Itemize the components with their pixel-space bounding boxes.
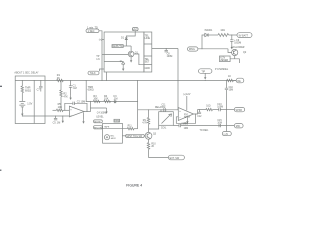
- svg-text:10K: 10K: [104, 97, 109, 100]
- node junction: [231, 35, 232, 36]
- wire: amp input: [138, 109, 179, 111]
- svg-text:EXT. SW: EXT. SW: [170, 157, 180, 160]
- svg-text:100M: 100M: [167, 56, 173, 58]
- transistor Q1: [130, 46, 132, 51]
- svg-text:ABOUT 1 SEC. DELAY: ABOUT 1 SEC. DELAY: [14, 71, 39, 74]
- capacitor C1 to ground: [70, 81, 72, 86]
- diode D2 1N4001: [205, 33, 208, 36]
- svg-text:FIGURE 4: FIGURE 4: [126, 184, 142, 188]
- capacitor C7 (in box): [40, 81, 42, 87]
- svg-text:1.5V: 1.5V: [27, 102, 32, 105]
- svg-text:(+): (+): [99, 38, 102, 41]
- ground (battery): [21, 111, 23, 116]
- decoder box outline: [104, 32, 144, 72]
- wire: left pin to LED: [104, 61, 123, 63]
- ground (op-amp U1): [83, 112, 85, 119]
- ground (TIP): [204, 73, 206, 75]
- svg-text:47K: 47K: [63, 95, 68, 98]
- svg-text:10M: 10M: [184, 128, 189, 130]
- relay switch arm: [162, 114, 172, 124]
- capacitor C11 on amp input: [163, 109, 164, 111]
- svg-text:IN4001: IN4001: [205, 29, 213, 32]
- svg-text:FOLLOWER: FOLLOWER: [232, 47, 245, 49]
- transistor Q3: [145, 132, 152, 139]
- op-amp U2: [178, 108, 193, 121]
- svg-text:(+)12V: (+)12V: [183, 94, 190, 96]
- svg-text:2K: 2K: [57, 77, 60, 80]
- svg-text:TAPE: TAPE: [104, 125, 110, 128]
- svg-text:SET: SET: [145, 61, 150, 64]
- ground (C4): [105, 109, 107, 114]
- svg-text:10M: 10M: [217, 123, 222, 125]
- chain label: tone decoder IC: [112, 45, 123, 48]
- svg-text:2K: 2K: [151, 146, 154, 148]
- svg-text:10Ω: 10Ω: [220, 29, 225, 32]
- wire: signal bus: [86, 100, 137, 102]
- ground (C9): [231, 45, 233, 50]
- terminal oval TIP: [199, 69, 212, 74]
- zener diode Z1: [220, 56, 231, 62]
- op-amp U1: [69, 106, 84, 117]
- wire: vertical from rail: [137, 81, 139, 129]
- wire: stub to relay: [160, 110, 162, 112]
- svg-text:REM: REM: [115, 121, 120, 123]
- svg-text:9V BATT: 9V BATT: [239, 34, 249, 37]
- edge mark 1: [0, 85, 2, 87]
- terminal oval: 1 SEC TD: [86, 29, 99, 33]
- switch label box RECORD: [94, 126, 103, 129]
- terminal oval REM: [236, 78, 244, 83]
- svg-text:10Ω: 10Ω: [206, 106, 211, 108]
- svg-text:4.7K: 4.7K: [142, 122, 147, 124]
- diode D1: [125, 38, 127, 40]
- svg-text:1.6: 1.6: [96, 58, 100, 61]
- terminal oval SPKR: [234, 107, 244, 111]
- wire: output: [196, 110, 206, 114]
- wire: Q1 base from box pin: [104, 54, 128, 56]
- terminal oval +12V: [132, 28, 138, 31]
- ground (Q1 emitter): [130, 57, 132, 58]
- svg-text:1K: 1K: [228, 75, 231, 78]
- svg-text:P CHANNEL: P CHANNEL: [215, 68, 229, 71]
- wire: pin TP: [102, 54, 104, 56]
- switch chain label: [122, 135, 125, 137]
- label box REM: [114, 119, 120, 122]
- terminal oval RING: [188, 47, 198, 51]
- svg-text:C7: C7: [37, 89, 41, 92]
- capacitor C3 on bus: [112, 100, 115, 102]
- svg-text:1 SEC: 1 SEC: [88, 30, 95, 33]
- wire: pin (+): [102, 39, 104, 41]
- node junction rail/vert: [226, 80, 227, 81]
- svg-text:(+)V: (+)V: [224, 134, 229, 136]
- terminal oval EXT SW: [168, 155, 184, 160]
- svg-text:SPKR: SPKR: [236, 109, 243, 112]
- wire: relay coil to Q3: [149, 125, 159, 129]
- svg-text:+: +: [70, 108, 72, 111]
- wire: pin from decoder box: [152, 48, 178, 50]
- capacitor C8 to ground (hanging): [165, 49, 167, 51]
- svg-text:RECORD: RECORD: [94, 127, 104, 129]
- junction dots: [22, 80, 206, 117]
- svg-text:C12: C12: [197, 116, 202, 118]
- svg-text:10K: 10K: [93, 97, 98, 100]
- svg-text:TO REC.: TO REC.: [200, 130, 210, 132]
- capacitor C10 on vertical: [225, 88, 228, 90]
- svg-text:C5 .1M: C5 .1M: [53, 122, 61, 125]
- svg-text:SPDT: SPDT: [184, 117, 191, 119]
- svg-text:NE567TD: NE567TD: [113, 46, 124, 48]
- svg-text:MUTE: MUTE: [94, 121, 101, 123]
- svg-text:600Ω: 600Ω: [88, 89, 94, 92]
- station box outline: [15, 76, 45, 124]
- wire: power pin: [186, 96, 188, 110]
- wire: inner drop: [33, 81, 35, 124]
- svg-text:JACK: JACK: [111, 137, 117, 140]
- jack circle: [104, 135, 109, 140]
- wire: box bottom pin to rail: [105, 72, 107, 81]
- resistor R11: [102, 128, 127, 130]
- battery B1: [19, 102, 25, 107]
- resistor R3: [93, 100, 100, 102]
- svg-text:C14: C14: [184, 123, 189, 125]
- resistor R7 1K (on rail): [227, 79, 234, 81]
- terminal oval TALK: [88, 71, 99, 75]
- capacitor C9: [231, 35, 233, 40]
- svg-text:Q2: Q2: [243, 51, 247, 54]
- svg-text:10M: 10M: [229, 89, 234, 91]
- wire: drop from pin wire to amp input: [177, 49, 179, 110]
- svg-text:MIC: MIC: [236, 125, 241, 128]
- capacitor C15: [219, 124, 221, 127]
- resistor R2 47K (hanging from rail): [60, 81, 62, 91]
- relay RY1 box: [159, 112, 174, 126]
- svg-text:ZENER: ZENER: [220, 60, 228, 62]
- svg-text:SPST TOG SW: SPST TOG SW: [126, 136, 143, 138]
- wire: supply vertical: [226, 81, 228, 132]
- svg-text:1000M: 1000M: [234, 42, 241, 44]
- svg-text:C4 100M: C4 100M: [97, 113, 106, 115]
- ground (LED): [122, 66, 124, 71]
- connector box: [103, 123, 123, 143]
- wire: +12V down: [126, 31, 135, 38]
- svg-text:C2 10M: C2 10M: [77, 100, 85, 103]
- svg-text:GND: GND: [145, 67, 151, 70]
- svg-text:–: –: [70, 114, 72, 117]
- terminal oval MIC: [234, 124, 243, 128]
- terminal oval 9V BATT: [237, 33, 252, 38]
- svg-text:COIL: COIL: [161, 128, 167, 130]
- wire: feedback loop: [176, 114, 195, 123]
- edge mark 2: [0, 169, 1, 171]
- terminal oval bottom of supply vertical: [222, 132, 231, 136]
- svg-text:D1: D1: [121, 37, 125, 40]
- resistor R10 2K (emitter): [148, 139, 150, 142]
- svg-text:.1M: .1M: [113, 97, 117, 100]
- svg-text:R11: R11: [128, 126, 133, 128]
- wire: Q1 right to terminal column: [134, 54, 144, 65]
- wire: corner up to diode line: [202, 35, 205, 49]
- wire: main line rail: [15, 80, 236, 82]
- terminal column: [144, 32, 152, 72]
- resistor R5 on input wire: [53, 109, 57, 111]
- svg-text:Q3: Q3: [153, 134, 157, 136]
- capacitor C13 series: [219, 108, 221, 111]
- resistor TMR 600 ohm (vertical, in box): [21, 81, 23, 87]
- wire: battery return line: [22, 115, 55, 117]
- svg-text:.1M: .1M: [73, 87, 77, 90]
- svg-text:10K: 10K: [58, 106, 63, 109]
- svg-text:600Ω: 600Ω: [25, 89, 31, 92]
- svg-text:100M: 100M: [217, 107, 223, 109]
- LED1: [120, 60, 125, 64]
- wire: box left pin to TALK oval: [100, 69, 105, 71]
- svg-text:TIP: TIP: [201, 70, 205, 73]
- wire: relay to mic: [173, 125, 179, 127]
- capacitor C2 feedback: [65, 103, 73, 110]
- svg-text:LINE: LINE: [145, 37, 151, 40]
- svg-text:LEVEL: LEVEL: [96, 117, 104, 119]
- svg-text:RING: RING: [189, 48, 195, 51]
- lower input network: capacitor C5 and ground: [56, 116, 70, 118]
- capacitor C12 output to gnd: [198, 110, 200, 113]
- svg-text:RELAY: RELAY: [155, 106, 163, 109]
- ground (C1): [69, 95, 71, 100]
- capacitor C4 wire to ground: [91, 108, 107, 109]
- svg-text:+: +: [179, 110, 181, 113]
- resistor R9 4.7K (to Q3): [148, 110, 150, 118]
- resistor R4: [104, 100, 111, 102]
- svg-text:TALK: TALK: [90, 72, 96, 75]
- resistor R8: [206, 108, 213, 110]
- switch label box MUTE: [94, 120, 103, 123]
- wire: oval down to rail: [99, 31, 102, 81]
- resistor R1 2K (on rail): [57, 79, 64, 81]
- ground (U2): [186, 118, 188, 120]
- resistor R6 10 ohm: [218, 34, 229, 37]
- wire: U1 output: [84, 101, 91, 111]
- wire: TMB drop from rail: [85, 81, 87, 102]
- node junction bus/vert: [137, 101, 138, 102]
- svg-text:RE: RE: [237, 80, 241, 83]
